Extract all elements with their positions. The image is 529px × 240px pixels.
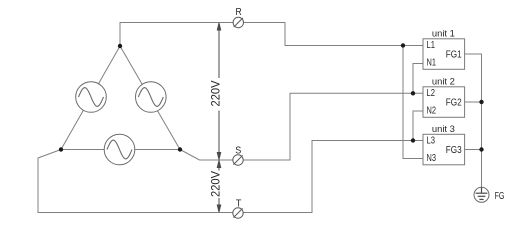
svg-text:S: S [235,146,241,157]
svg-text:N3: N3 [427,153,437,164]
svg-text:FG1: FG1 [446,48,462,60]
svg-text:N1: N1 [427,58,437,69]
svg-text:L3: L3 [427,136,436,147]
svg-text:T: T [236,198,242,209]
svg-text:L2: L2 [427,88,436,99]
svg-text:220V: 220V [208,171,222,197]
svg-text:L1: L1 [427,40,436,51]
svg-text:R: R [236,7,242,18]
svg-text:FG: FG [495,191,505,202]
svg-text:unit 3: unit 3 [432,124,455,135]
svg-text:FG3: FG3 [446,144,462,156]
svg-text:FG2: FG2 [446,96,462,108]
svg-text:unit 2: unit 2 [432,77,455,88]
svg-text:220V: 220V [208,81,222,107]
svg-text:N2: N2 [427,106,437,117]
svg-text:unit 1: unit 1 [432,29,455,40]
